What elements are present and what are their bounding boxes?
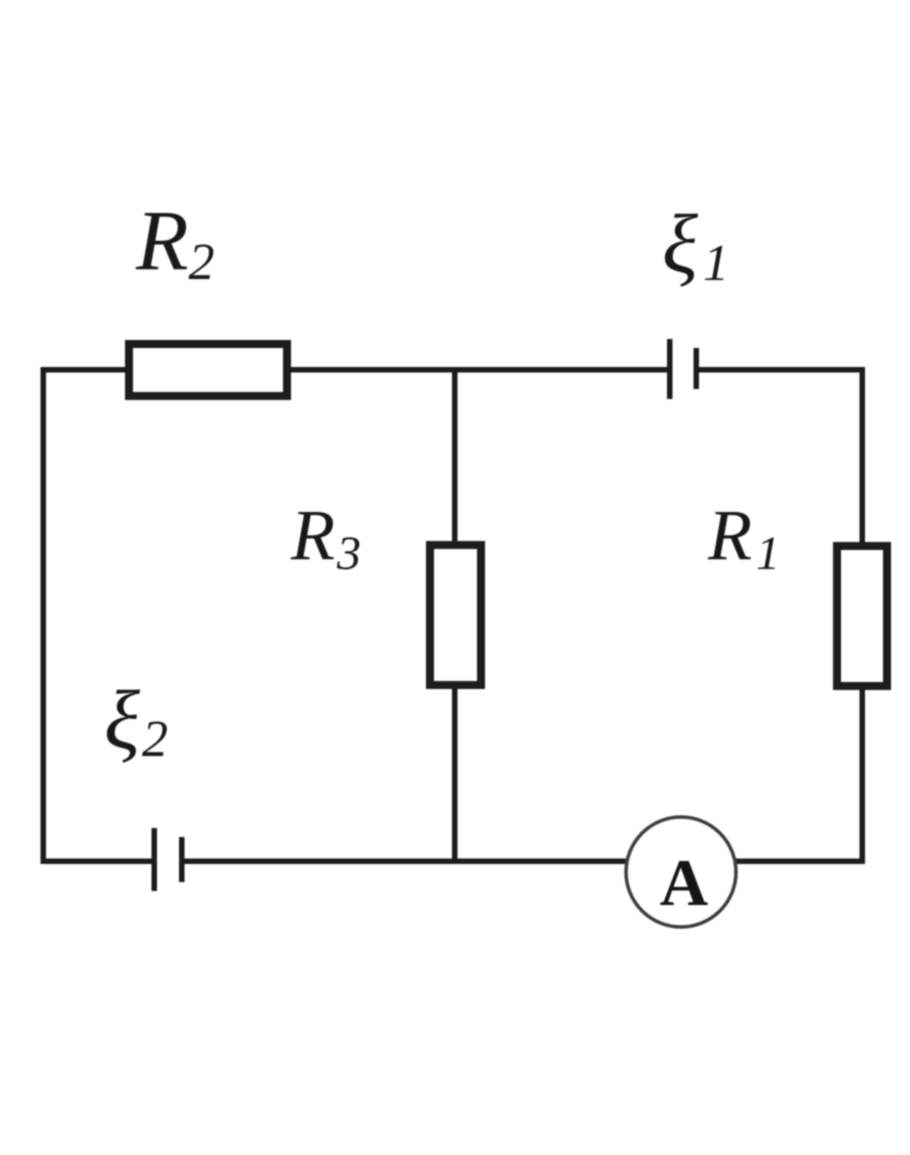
wire bottom segment battery xi2 to ammeter: [182, 859, 630, 865]
wire left vertical: [41, 367, 47, 863]
wire bottom segment left corner to battery xi2: [41, 859, 154, 865]
wire right vertical lower (R1 to bottom corner): [860, 687, 866, 864]
battery xi2 short plate: [179, 837, 185, 882]
wire middle vertical upper (top wire to R3): [452, 369, 458, 544]
wire right vertical upper (corner to R1): [860, 367, 866, 545]
battery xi1 long plate: [667, 339, 673, 399]
resistor R3: [430, 545, 481, 685]
svg-text:A: A: [660, 846, 708, 920]
resistor R1: [837, 546, 887, 686]
wire top segment R2 to battery xi1: [287, 367, 668, 373]
ammeter A circle: [626, 817, 736, 927]
battery xi2 long plate: [152, 828, 158, 891]
wire top segment battery xi1 to right corner: [698, 367, 864, 373]
wire middle vertical lower (R3 to bottom wire): [452, 686, 458, 863]
wire top segment left corner to R2: [41, 367, 130, 373]
battery xi1 short plate: [694, 348, 700, 389]
wire bottom segment ammeter to right corner: [733, 859, 865, 865]
resistor R2: [129, 344, 287, 396]
